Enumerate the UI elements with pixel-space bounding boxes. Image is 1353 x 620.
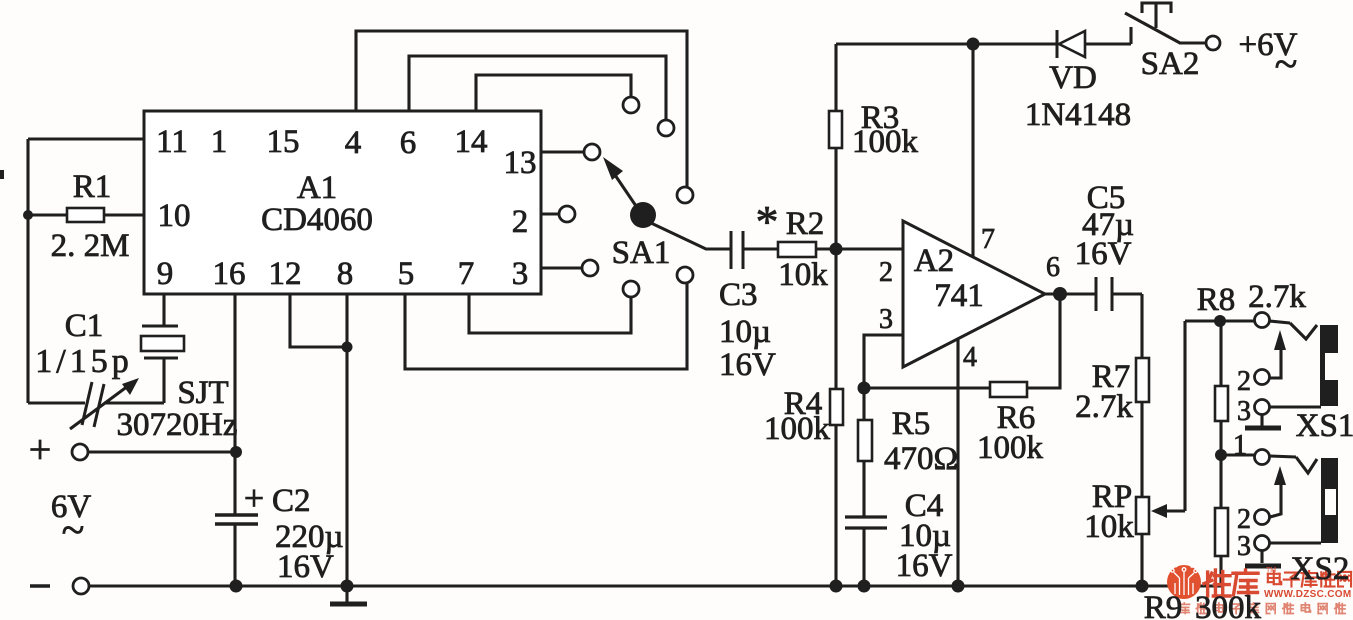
svg-text:300k: 300k: [1195, 590, 1262, 620]
svg-text:16V: 16V: [277, 549, 334, 585]
svg-text:R8: R8: [1197, 282, 1236, 318]
svg-text:A1: A1: [297, 170, 337, 206]
svg-text:2. 2M: 2. 2M: [51, 228, 130, 264]
svg-text:~: ~: [62, 508, 85, 554]
svg-text:30720Hz: 30720Hz: [117, 407, 238, 443]
svg-text:7: 7: [981, 224, 995, 255]
svg-text:~: ~: [1275, 42, 1298, 88]
svg-text:A2: A2: [914, 243, 954, 279]
svg-text:5: 5: [398, 256, 415, 292]
svg-text:1: 1: [1233, 430, 1247, 461]
svg-text:3: 3: [512, 256, 529, 292]
svg-text:7: 7: [458, 256, 475, 292]
svg-text:6: 6: [400, 125, 417, 161]
svg-text:*: *: [756, 196, 779, 247]
svg-text:+: +: [29, 427, 52, 472]
svg-text:+: +: [244, 478, 264, 518]
svg-text:16V: 16V: [1075, 236, 1132, 272]
svg-text:C1: C1: [65, 308, 104, 344]
svg-text:TM: TM: [1266, 567, 1276, 574]
svg-text:SA2: SA2: [1141, 46, 1200, 82]
svg-text:3: 3: [1237, 531, 1251, 562]
svg-text:C3: C3: [719, 277, 758, 313]
svg-text:C2: C2: [272, 483, 311, 519]
svg-text:R2: R2: [786, 206, 825, 242]
svg-text:100k: 100k: [764, 411, 831, 447]
svg-text:12: 12: [269, 256, 302, 292]
svg-text:3: 3: [1237, 396, 1251, 427]
svg-text:16V: 16V: [896, 548, 953, 584]
svg-text:4: 4: [963, 342, 977, 373]
svg-text:XS1: XS1: [1296, 408, 1353, 444]
svg-text:2.7k: 2.7k: [1248, 279, 1306, 315]
svg-text:8: 8: [337, 256, 354, 292]
svg-text:470Ω: 470Ω: [884, 441, 958, 477]
svg-text:15: 15: [267, 124, 300, 160]
svg-text:SJT: SJT: [177, 375, 228, 411]
svg-text:16: 16: [213, 256, 246, 292]
svg-text:XS2: XS2: [1291, 551, 1350, 587]
svg-text:9: 9: [157, 256, 174, 292]
svg-text:2: 2: [879, 257, 893, 288]
svg-text:R1: R1: [73, 169, 112, 205]
svg-text:741: 741: [934, 278, 984, 314]
svg-text:14: 14: [455, 124, 488, 160]
svg-text:1N4148: 1N4148: [1025, 97, 1131, 133]
svg-text:100k: 100k: [852, 124, 919, 160]
svg-text:4: 4: [345, 125, 362, 161]
svg-text:VD: VD: [1049, 60, 1097, 96]
svg-text:1/15p: 1/15p: [35, 343, 132, 380]
svg-text:100k: 100k: [977, 430, 1044, 466]
svg-text:1: 1: [211, 124, 228, 160]
svg-text:CD4060: CD4060: [261, 202, 373, 238]
svg-text:R5: R5: [892, 406, 931, 442]
svg-text:2.7k: 2.7k: [1075, 389, 1133, 425]
svg-text:10k: 10k: [778, 257, 828, 293]
svg-text:3: 3: [879, 304, 893, 335]
svg-text:16V: 16V: [719, 347, 776, 383]
svg-text:10µ: 10µ: [719, 314, 771, 350]
svg-text:2: 2: [512, 204, 529, 240]
svg-text:10: 10: [158, 198, 191, 234]
svg-text:6: 6: [1046, 252, 1060, 283]
svg-text:10k: 10k: [1084, 509, 1134, 545]
svg-text:13: 13: [504, 145, 537, 181]
svg-text:2: 2: [1237, 366, 1251, 397]
svg-text:11: 11: [156, 124, 188, 160]
svg-text:R9: R9: [1144, 590, 1183, 620]
svg-text:WWW.DZSC.COM: WWW.DZSC.COM: [1264, 589, 1351, 600]
svg-text:SA1: SA1: [612, 235, 671, 271]
